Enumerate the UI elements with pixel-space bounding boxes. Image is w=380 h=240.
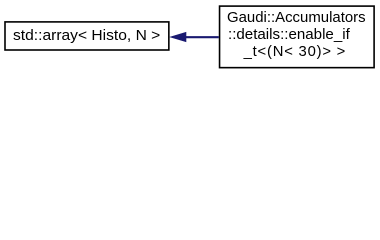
node box: Gaudi::Accumulators::details::enable_if_t<(N< 30)> >: [220, 6, 375, 68]
arrowhead pointing to std::array: [170, 32, 186, 41]
label line 2: [228, 28, 350, 43]
label line 3: [244, 45, 347, 60]
node box: std::array< Histo, N >: [5, 22, 169, 50]
wire: inheritance edge tail: [186, 36, 219, 38]
label: std::array< Histo, N >: [13, 29, 160, 44]
label line 1: [227, 11, 366, 26]
